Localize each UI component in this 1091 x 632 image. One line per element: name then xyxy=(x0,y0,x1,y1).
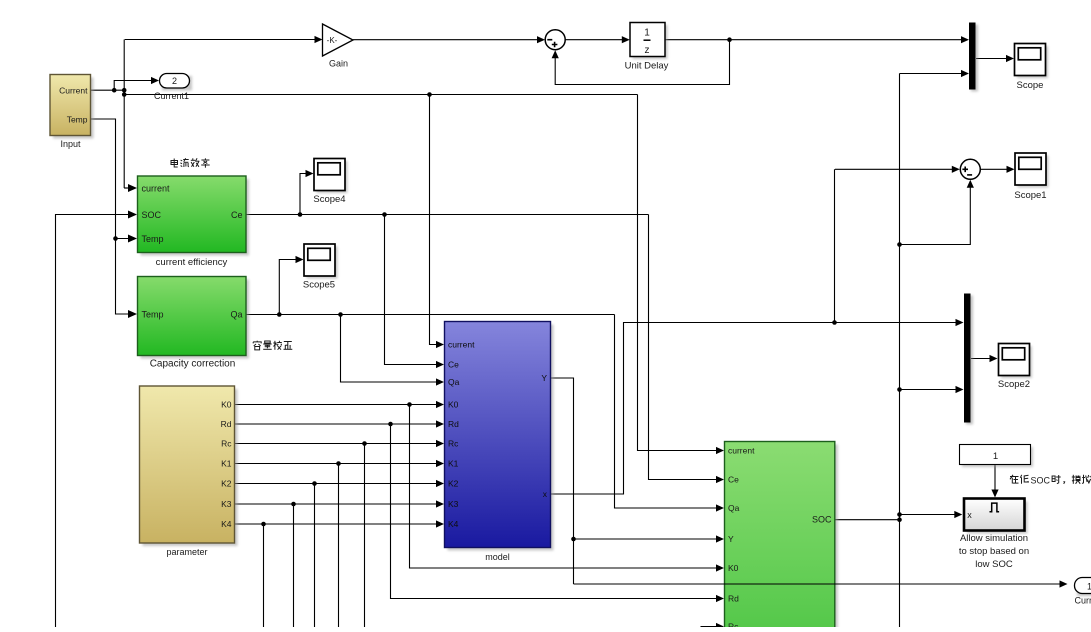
svg-text:current: current xyxy=(448,340,475,350)
svg-text:K2: K2 xyxy=(221,479,232,489)
svg-text:Rd: Rd xyxy=(221,419,232,429)
svg-text:Rc: Rc xyxy=(728,622,739,628)
svg-text:low SOC: low SOC xyxy=(975,559,1013,570)
svg-text:K3: K3 xyxy=(448,499,459,509)
svg-text:Qa: Qa xyxy=(230,310,242,320)
svg-text:Ce: Ce xyxy=(231,210,243,220)
svg-text:SOC: SOC xyxy=(142,210,162,220)
svg-text:Gain: Gain xyxy=(329,59,348,69)
svg-text:current efficiency: current efficiency xyxy=(156,257,228,268)
svg-text:Scope5: Scope5 xyxy=(303,280,335,291)
svg-text:K0: K0 xyxy=(221,400,232,410)
svg-text:Rc: Rc xyxy=(448,439,459,449)
svg-text:K4: K4 xyxy=(221,519,232,529)
svg-text:Qa: Qa xyxy=(448,377,460,387)
svg-text:-K-: -K- xyxy=(327,36,338,45)
svg-text:K0: K0 xyxy=(728,563,739,573)
svg-text:current: current xyxy=(142,184,171,194)
svg-text:Current2: Current2 xyxy=(1074,596,1091,606)
svg-text:Rc: Rc xyxy=(221,439,232,449)
svg-text:current: current xyxy=(728,446,755,456)
svg-text:Qa: Qa xyxy=(728,503,740,513)
svg-text:Input: Input xyxy=(60,139,81,149)
svg-text:K1: K1 xyxy=(448,459,459,469)
svg-text:Temp: Temp xyxy=(142,234,164,244)
svg-text:Scope4: Scope4 xyxy=(313,194,345,205)
svg-text:Y: Y xyxy=(728,534,734,544)
svg-text:parameter: parameter xyxy=(166,547,207,557)
svg-text:x: x xyxy=(967,510,972,520)
svg-text:Ce: Ce xyxy=(728,475,739,485)
svg-text:Scope2: Scope2 xyxy=(998,379,1030,390)
svg-text:Scope1: Scope1 xyxy=(1014,190,1046,201)
svg-text:Temp: Temp xyxy=(67,115,88,125)
svg-text:1: 1 xyxy=(644,28,650,39)
svg-text:to stop based on: to stop based on xyxy=(959,546,1029,557)
svg-text:Current: Current xyxy=(59,86,88,96)
svg-text:model: model xyxy=(485,552,510,562)
svg-text:2: 2 xyxy=(172,76,177,86)
svg-text:1: 1 xyxy=(1087,582,1091,592)
svg-text:Current1: Current1 xyxy=(154,91,189,101)
svg-text:Ce: Ce xyxy=(448,360,459,370)
svg-text:1: 1 xyxy=(993,451,998,462)
svg-text:z: z xyxy=(645,45,650,56)
svg-text:K0: K0 xyxy=(448,400,459,410)
svg-text:K1: K1 xyxy=(221,459,232,469)
svg-text:Allow simulation: Allow simulation xyxy=(960,533,1028,544)
svg-text:K4: K4 xyxy=(448,519,459,529)
svg-text:Unit Delay: Unit Delay xyxy=(625,61,669,72)
svg-text:Temp: Temp xyxy=(142,310,164,320)
svg-text:SOC: SOC xyxy=(812,515,832,525)
svg-text:SOC: SOC xyxy=(1031,476,1051,486)
svg-text:K3: K3 xyxy=(221,499,232,509)
svg-text:Rd: Rd xyxy=(728,594,739,604)
svg-text:K2: K2 xyxy=(448,479,459,489)
svg-text:Rd: Rd xyxy=(448,419,459,429)
svg-text:Capacity correction: Capacity correction xyxy=(150,359,236,370)
svg-text:Scope: Scope xyxy=(1017,80,1044,91)
svg-text:Y: Y xyxy=(541,373,547,383)
